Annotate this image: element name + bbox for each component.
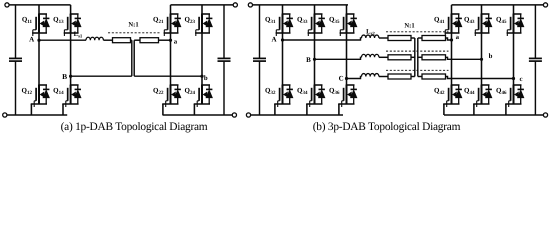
svg-text:Q23: Q23 xyxy=(185,16,196,26)
svg-text:B: B xyxy=(62,72,67,81)
svg-text:b: b xyxy=(489,53,493,60)
svg-text:Q11: Q11 xyxy=(22,16,33,26)
svg-text:Q35: Q35 xyxy=(329,16,340,26)
svg-text:N:1: N:1 xyxy=(128,22,138,29)
svg-text:(a) 1p-DAB Topological Diagram: (a) 1p-DAB Topological Diagram xyxy=(61,121,208,133)
svg-text:Q44: Q44 xyxy=(464,87,475,97)
svg-text:B: B xyxy=(306,56,311,64)
svg-text:a: a xyxy=(174,38,178,45)
svg-text:c: c xyxy=(519,76,522,83)
svg-text:b: b xyxy=(204,75,208,82)
svg-text:(b) 3p-DAB Topological Diagram: (b) 3p-DAB Topological Diagram xyxy=(313,121,461,133)
svg-text:Q22: Q22 xyxy=(153,87,164,97)
svg-text:Q43: Q43 xyxy=(464,16,475,26)
svg-text:Q21: Q21 xyxy=(153,16,164,26)
svg-text:Q34: Q34 xyxy=(297,87,308,97)
svg-text:Q33: Q33 xyxy=(297,16,308,26)
svg-text:Q24: Q24 xyxy=(185,87,196,97)
svg-text:Q31: Q31 xyxy=(265,16,276,26)
svg-text:Q36: Q36 xyxy=(329,87,340,97)
svg-text:Q45: Q45 xyxy=(496,16,507,26)
svg-text:Q32: Q32 xyxy=(265,87,276,97)
svg-text:a: a xyxy=(456,34,460,41)
svg-text:Q12: Q12 xyxy=(22,87,33,97)
svg-text:N:1: N:1 xyxy=(404,23,414,30)
svg-text:A: A xyxy=(29,36,34,44)
svg-text:Q41: Q41 xyxy=(434,16,445,26)
svg-text:Q42: Q42 xyxy=(434,87,445,97)
svg-text:Q14: Q14 xyxy=(53,87,64,97)
svg-text:A: A xyxy=(271,36,276,44)
svg-text:Q46: Q46 xyxy=(496,87,507,97)
svg-text:C: C xyxy=(339,74,344,82)
svg-text:Q13: Q13 xyxy=(53,16,64,26)
